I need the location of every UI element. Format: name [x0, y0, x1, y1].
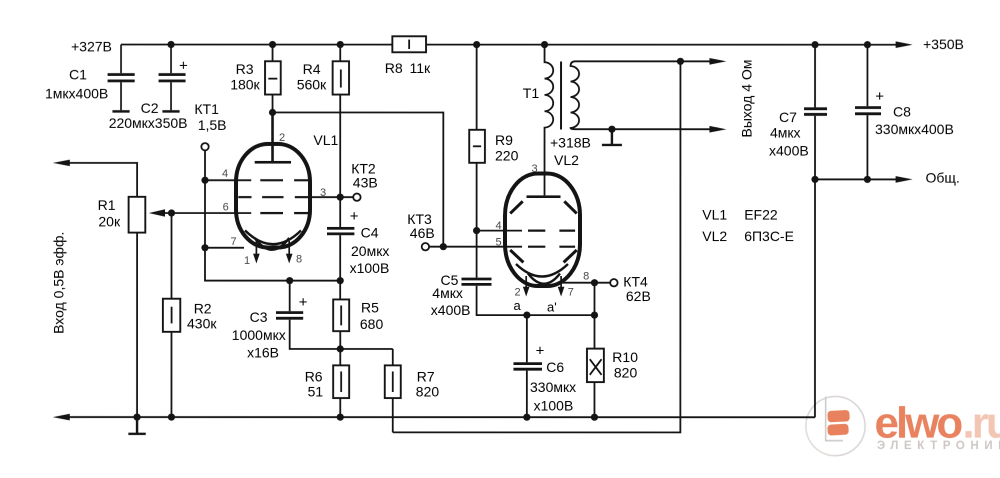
VL1 cathode arc: [245, 230, 301, 244]
R7 power mark: [392, 371, 394, 392]
R2 power mark: [171, 307, 173, 324]
svg-text:C6: C6: [546, 359, 564, 375]
resistor R3 body: [265, 61, 281, 94]
svg-text:КТ1: КТ1: [194, 101, 219, 117]
svg-text:2: 2: [514, 287, 520, 299]
node Obshch C7: [811, 176, 818, 183]
svg-text:C8: C8: [893, 104, 911, 120]
wire R9 top stem: [476, 45, 478, 130]
elwo.ru logo gray E frame: [826, 397, 843, 441]
node bus R1: [133, 414, 140, 421]
wire R2 bottom stem: [170, 332, 172, 417]
node C6 top: [523, 312, 530, 319]
wire VL2 pin4 line: [477, 230, 522, 232]
svg-text:VL2: VL2: [702, 228, 727, 244]
svg-text:4мкх: 4мкх: [770, 125, 801, 141]
svg-text:6П3С-Е: 6П3С-Е: [744, 228, 794, 244]
svg-text:1мкх400В: 1мкх400В: [45, 85, 108, 101]
node C4 bottom / R5: [337, 277, 344, 284]
svg-text:х400В: х400В: [431, 302, 471, 318]
svg-text:20к: 20к: [98, 214, 121, 230]
wire C7 column: [814, 45, 816, 108]
node C7 top: [811, 41, 818, 48]
tube VL2 envelope: [505, 174, 580, 287]
test point KT1: [201, 143, 208, 150]
svg-text:R5: R5: [361, 300, 379, 316]
capacitor C8 plates: [855, 108, 881, 114]
svg-text:a': a': [547, 300, 557, 315]
arrow input left: [53, 160, 70, 167]
wire T1 secondary winding and output leads: [571, 61, 712, 129]
wire R9 bottom stem to pin4 node: [476, 163, 478, 231]
node R5/R6/R7: [337, 345, 344, 352]
svg-text:+: +: [179, 57, 188, 74]
resistor R9 body: [469, 130, 485, 163]
svg-text:560к: 560к: [297, 77, 327, 93]
svg-text:1: 1: [244, 255, 250, 267]
VL2 grid pin4 dashes: [528, 230, 575, 232]
capacitor C2: [170, 45, 172, 111]
svg-text:330мкх400В: 330мкх400В: [875, 121, 954, 137]
wire C4 top stem: [339, 197, 341, 227]
VL2 heater arc: [528, 274, 560, 284]
arrow Obshch: [896, 176, 913, 183]
node KT2 / VL1 pin3: [337, 194, 344, 201]
svg-text:Выход 4 Ом: Выход 4 Ом: [739, 60, 755, 138]
VL1 grid pin3 dashes: [238, 196, 308, 198]
wire R10 bottom stem: [593, 382, 595, 417]
VL2 beam plate lower right: [564, 250, 577, 262]
svg-text:C7: C7: [779, 109, 797, 125]
arrow output top: [709, 58, 726, 65]
test point KT4: [610, 279, 617, 286]
wire R6 bottom stem: [339, 398, 341, 417]
VL2 beam plate upper right: [564, 201, 576, 213]
VL1 anode plate: [255, 112, 291, 162]
capacitor C6 plates: [513, 364, 542, 370]
svg-text:R9: R9: [495, 132, 513, 148]
svg-text:ЭЛЕКТРОНИКА: ЭЛЕКТРОНИКА: [877, 440, 1000, 452]
svg-text:2: 2: [279, 132, 285, 144]
arrow +350V: [896, 41, 913, 48]
VL1 heater arc: [255, 238, 290, 250]
svg-text:R1: R1: [98, 197, 116, 213]
svg-text:330мкх: 330мкх: [530, 379, 576, 395]
wire R1 wiper to VL1 grid pin6: [164, 212, 251, 214]
wire R3 bottom stem: [272, 95, 274, 113]
svg-text:43В: 43В: [353, 174, 378, 190]
svg-text:4: 4: [496, 220, 502, 232]
wire C3 top stem: [289, 281, 291, 312]
svg-text:R2: R2: [194, 300, 212, 316]
resistor R5 body: [333, 299, 349, 331]
svg-text:4: 4: [222, 168, 228, 180]
VL2 heater lead pin2: [525, 276, 527, 289]
VL2 heater arrowhead pin7: [558, 287, 565, 297]
VL2 grid pin5 dashes: [528, 246, 575, 248]
resistor R6 body: [333, 365, 349, 398]
wire R5 bottom to R6 top through node: [339, 331, 341, 365]
R6 power mark: [340, 371, 342, 392]
T1 core: [560, 62, 562, 130]
wire C7 lower column to ground bus: [814, 116, 816, 418]
wire C5 top stem: [476, 231, 478, 278]
VL1 heater lead pin1: [255, 241, 257, 256]
wire VL1 pin4 line: [205, 179, 251, 181]
R8 power mark: [408, 40, 410, 49]
node VL2 grid pin5: [440, 243, 447, 250]
wire C5 bottom stem to cathode rail: [477, 286, 595, 315]
svg-text:1000мкх: 1000мкх: [232, 327, 286, 343]
node R9 top: [473, 41, 480, 48]
svg-text:46В: 46В: [410, 225, 435, 241]
node bus C6: [523, 414, 530, 421]
svg-text:C2: C2: [141, 100, 159, 116]
svg-text:180к: 180к: [230, 77, 260, 93]
node feedback tap: [677, 58, 684, 65]
resistor R10 body: [587, 349, 604, 383]
svg-text:+: +: [299, 294, 308, 311]
svg-text:C3: C3: [250, 309, 268, 325]
svg-text:820: 820: [416, 383, 440, 399]
svg-text:+318В: +318В: [550, 135, 591, 151]
VL2 anode plate: [527, 195, 561, 198]
node T1 secondary ground: [608, 126, 615, 133]
svg-text:Т1: Т1: [523, 85, 540, 101]
tube VL1 envelope: [236, 144, 310, 248]
resistor R2 body: [163, 299, 180, 332]
R5 power mark: [340, 305, 342, 325]
svg-text:Вход 0,5В эфф.: Вход 0,5В эфф.: [50, 232, 66, 334]
wire C6 top stem: [526, 315, 528, 362]
R10 power mark X: [590, 359, 602, 375]
wire R4 top stem: [339, 45, 341, 62]
arrow output bottom: [709, 126, 726, 133]
svg-text:C1: C1: [69, 66, 87, 82]
node VL2 screen pin4: [473, 227, 480, 234]
wire R4 bottom stem: [339, 95, 341, 198]
elwo.ru logo sketch circle: [806, 396, 865, 455]
elwo.ru logo orange E bar top: [827, 410, 850, 423]
wire R3 top stem: [272, 45, 274, 62]
svg-text:1,5В: 1,5В: [198, 117, 227, 133]
svg-text:a: a: [513, 298, 521, 313]
node R4 top: [337, 41, 344, 48]
node VL2 pin8 / R10: [591, 279, 598, 286]
wire ground bus: [68, 416, 815, 418]
R4 power mark: [340, 69, 342, 87]
wire KT1 column: [204, 150, 206, 247]
svg-text:11к: 11к: [410, 60, 432, 76]
svg-text:EF22: EF22: [744, 206, 778, 222]
svg-text:7: 7: [568, 287, 574, 299]
svg-text:+327В: +327В: [71, 38, 112, 54]
resistor R1 potentiometer body: [129, 197, 146, 233]
svg-text:+350В: +350В: [923, 36, 964, 52]
R3 power mark: [268, 78, 277, 80]
VL1 grid pin4 dashes: [260, 179, 308, 181]
wire C8 bottom stem: [866, 115, 868, 179]
wire C4 bottom stem: [339, 235, 341, 281]
svg-text:R6: R6: [305, 368, 323, 384]
wire R5 top stem: [339, 281, 341, 300]
R9 power mark: [473, 145, 481, 147]
arrow R1 wiper: [149, 209, 165, 216]
elwo.ru logo orange E bar bottom: [827, 424, 849, 436]
capacitor C1: [108, 44, 135, 110]
svg-text:680: 680: [360, 316, 384, 332]
svg-text:+: +: [350, 208, 359, 225]
svg-text:R8: R8: [385, 60, 403, 76]
svg-text:8: 8: [296, 254, 302, 266]
wire VL1 pin7 cathode line: [205, 247, 244, 249]
node VL1 anode: [269, 109, 276, 116]
node KT1 pin7: [201, 244, 208, 251]
svg-text:20мкх: 20мкх: [351, 243, 389, 259]
wire feedback line to output: [393, 61, 681, 432]
VL1 heater arrowhead pin8: [286, 254, 293, 264]
arrow ground bus left: [53, 414, 70, 421]
wire VL1 anode to VL2 grid link: [272, 112, 443, 246]
capacitor C3 plates: [276, 313, 303, 319]
svg-text:+: +: [536, 342, 545, 359]
node bus R6: [337, 414, 344, 421]
node C2 top: [167, 41, 174, 48]
svg-text:R4: R4: [303, 61, 321, 77]
svg-text:VL1: VL1: [313, 132, 338, 148]
VL2 cathode arc: [516, 264, 568, 277]
node C8 top: [864, 41, 871, 48]
wire top B+ bus +327V to +350V: [121, 44, 897, 46]
wire R2 top stem: [170, 213, 172, 299]
wire VL1 input line from left arrow to R1 top: [68, 163, 137, 197]
node R3 top: [269, 41, 276, 48]
svg-text:+: +: [875, 88, 884, 105]
wire T1 primary winding: [545, 45, 554, 196]
svg-text:220мкх350В: 220мкх350В: [109, 115, 188, 131]
svg-text:3: 3: [532, 163, 538, 175]
svg-text:R10: R10: [612, 349, 638, 365]
ground symbol at R1: [128, 417, 145, 434]
svg-text:8: 8: [583, 271, 589, 283]
svg-text:430к: 430к: [187, 315, 217, 331]
node Obshch C8: [864, 176, 871, 183]
VL2 heater lead pin7: [560, 276, 562, 289]
svg-text:3: 3: [320, 187, 326, 199]
resistor R8 body: [392, 36, 426, 52]
svg-text:Общ.: Общ.: [926, 170, 960, 186]
node bus R10: [591, 414, 598, 421]
svg-text:220: 220: [495, 147, 519, 163]
svg-text:C4: C4: [361, 224, 379, 240]
capacitor C7 plates: [804, 109, 827, 115]
svg-text:51: 51: [308, 383, 324, 399]
svg-text:х100В: х100В: [350, 260, 390, 276]
VL2 beam plate upper left: [510, 201, 523, 213]
wire VL2 pin8 to KT4: [561, 282, 610, 284]
resistor R7 body: [385, 365, 401, 398]
svg-text:5: 5: [495, 237, 501, 249]
wire Obshch line: [815, 178, 897, 180]
svg-text:62В: 62В: [626, 288, 651, 304]
wire R10 column top: [593, 283, 595, 349]
VL1 heater arrowhead pin1: [253, 254, 260, 264]
svg-text:R3: R3: [236, 61, 254, 77]
node R10 cathode rail: [591, 312, 598, 319]
node C3 top: [286, 277, 293, 284]
test point KT3: [422, 243, 429, 250]
node KT1 pin4: [201, 177, 208, 184]
VL1 heater lead pin8: [288, 241, 290, 256]
node T1 primary top: [541, 41, 548, 48]
VL2 beam plate lower left: [510, 250, 523, 262]
svg-text:х400В: х400В: [769, 143, 809, 159]
wire R7 bottom to feedback line: [392, 398, 394, 432]
test point KT2: [353, 193, 360, 200]
wire C3 bottom to feedback node: [290, 320, 393, 349]
node bus R2: [168, 414, 175, 421]
capacitor C4 plates: [327, 228, 354, 234]
wire C6 bottom stem: [526, 371, 528, 418]
ground symbol at T1 secondary: [602, 129, 622, 145]
svg-text:6: 6: [223, 201, 229, 213]
wire VL1 pin3 to KT2: [308, 196, 354, 198]
wire VL1 cathode node run: [205, 248, 340, 281]
node R2 top: [168, 209, 175, 216]
svg-text:VL1: VL1: [702, 206, 727, 222]
svg-text:х100В: х100В: [534, 397, 574, 413]
resistor R4 body: [333, 61, 349, 94]
svg-text:х16В: х16В: [247, 344, 279, 360]
VL2 heater arrowhead pin2: [523, 287, 530, 297]
wire R1 bottom stem to ground bus: [136, 233, 138, 418]
label C7: [769, 104, 954, 159]
svg-text:820: 820: [614, 365, 638, 381]
wire KT3 to VL2 pin5: [429, 246, 522, 248]
wire C8 top stem: [866, 45, 868, 107]
capacitor C5 plates: [461, 279, 491, 284]
svg-text:4мкх: 4мкх: [432, 285, 463, 301]
svg-text:VL2: VL2: [554, 152, 579, 168]
wire node to R7 top: [392, 349, 394, 365]
svg-text:R7: R7: [417, 368, 435, 384]
svg-text:7: 7: [230, 236, 236, 248]
VL1 grid pin6 dashes: [260, 212, 308, 214]
